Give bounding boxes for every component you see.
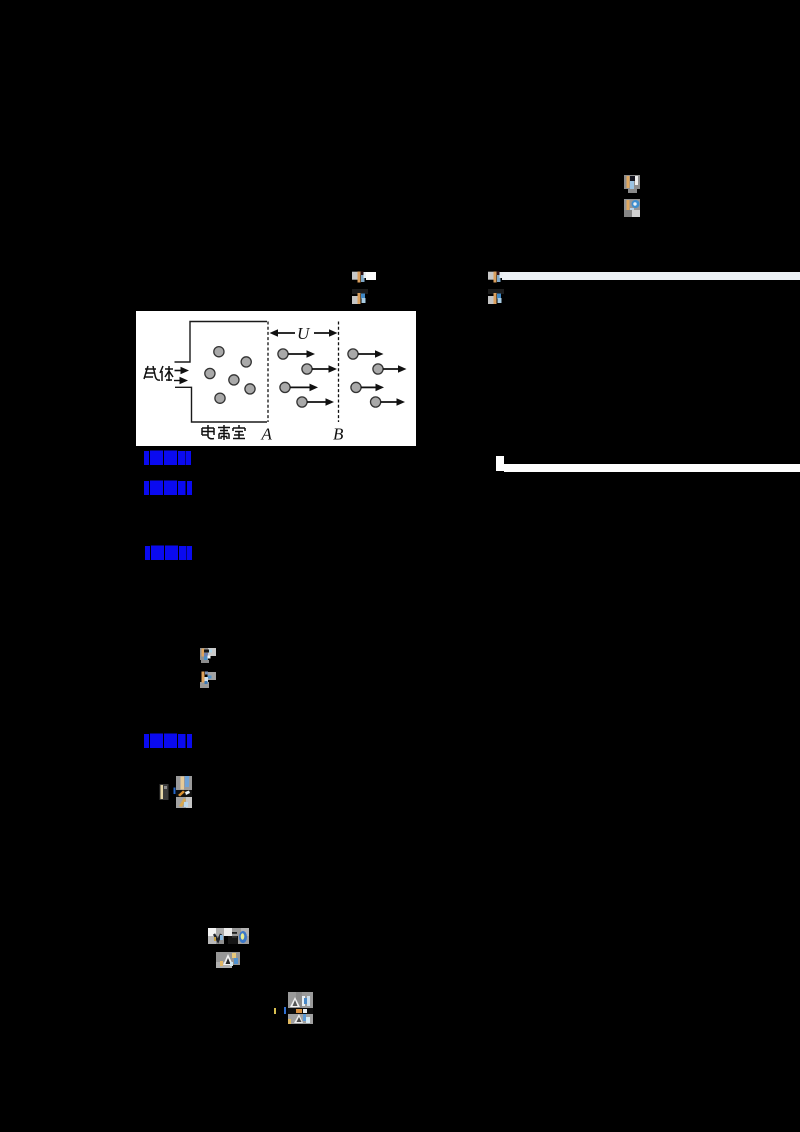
ions between A and B with velocity arrows xyxy=(278,349,312,407)
svg-text:U: U xyxy=(297,324,311,343)
formula thumbnail P1a xyxy=(352,271,368,283)
U double-headed arrow xyxy=(270,329,338,337)
formula v2=0 with checker background xyxy=(208,928,249,944)
dashed electrode line B xyxy=(338,322,340,423)
formula thumbnail P2b xyxy=(488,289,504,304)
blue section label 1 (考点) xyxy=(144,450,191,466)
blue tick xyxy=(284,1007,287,1014)
ions beyond B with velocity arrows xyxy=(348,349,383,407)
yellow tick xyxy=(274,1008,276,1014)
chamber gas molecules (6 circles) xyxy=(205,347,255,404)
blue section label 4 (解答) xyxy=(144,733,192,749)
formula thumbnail P2a xyxy=(488,271,504,283)
formula delta-E xyxy=(216,952,240,968)
fraction formula F2 (1/2) xyxy=(176,776,192,808)
label 气体 (gas) xyxy=(144,366,173,381)
formula thumbnail P1b xyxy=(352,289,368,304)
fraction formula delta-N over delta-t xyxy=(288,992,313,1024)
blue section label 2 (专题) xyxy=(144,480,192,496)
light horizontal bar (row highlight) xyxy=(502,272,800,280)
gas inlet arrow 1 xyxy=(175,367,190,375)
white patch right of P1a xyxy=(366,272,376,280)
gas inlet arrow 2 xyxy=(174,377,188,385)
formula thumbnail P3a xyxy=(624,175,640,193)
chamber outline xyxy=(175,322,268,423)
small dark formula F1 xyxy=(159,784,177,800)
svg-text:A: A xyxy=(261,425,273,444)
formula thumbnail P4a xyxy=(200,648,216,663)
figure: ionization chamber diagram (white image) xyxy=(136,311,416,446)
formula thumbnail P4b xyxy=(200,671,216,688)
label 电离室 (ionization chamber) xyxy=(202,425,245,440)
blue section label 3 (分析) xyxy=(145,545,192,561)
white horizontal bar with left notch xyxy=(496,456,504,471)
dashed electrode line A xyxy=(267,322,269,423)
svg-text:B: B xyxy=(333,425,344,444)
formula thumbnail P3b xyxy=(624,199,640,217)
